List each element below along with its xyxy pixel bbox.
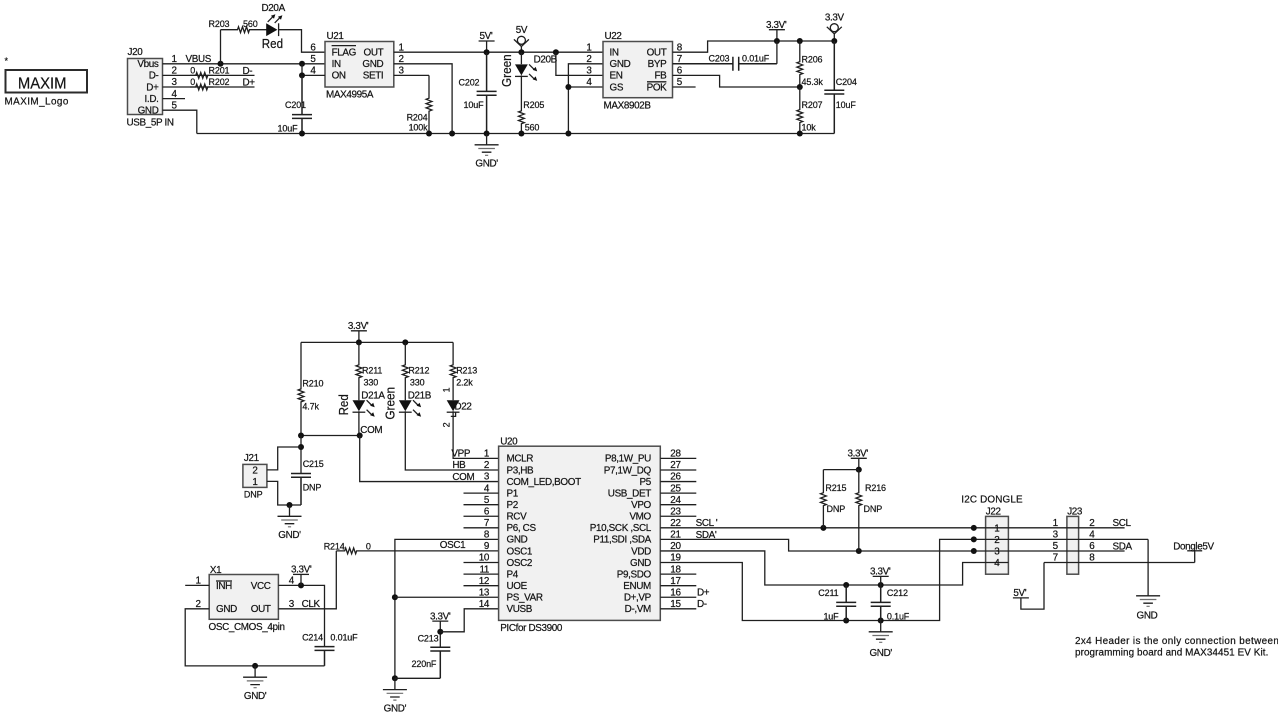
svg-text:GND': GND' (278, 530, 301, 541)
power tap 5V' dongle (1013, 597, 1029, 599)
svg-text:5V': 5V' (1013, 588, 1026, 599)
svg-text:P6, CS: P6, CS (507, 523, 537, 534)
svg-text:6: 6 (310, 42, 316, 53)
junction ON/C201 (299, 72, 305, 78)
wire D21B cathode to U20.HB (405, 412, 498, 470)
ground rail top section (197, 133, 835, 135)
svg-text:0.1uF: 0.1uF (887, 611, 910, 621)
svg-text:Green: Green (383, 387, 398, 420)
power flag 3.3V (827, 27, 842, 41)
wire COM (301, 435, 360, 437)
svg-text:1: 1 (252, 477, 258, 488)
ground GND' under C202 (475, 134, 499, 153)
wire X1.VCC to C214 (278, 585, 324, 646)
svg-text:0: 0 (190, 77, 195, 87)
svg-text:C215: C215 (303, 459, 324, 469)
power tap 3.3V' C213 (432, 620, 448, 622)
svg-text:EN: EN (610, 71, 623, 82)
ground GND' under U20 (383, 678, 407, 697)
microcontroller U20 body (499, 446, 661, 620)
resistor R214 (336, 548, 365, 554)
resistor R215 (821, 470, 827, 528)
svg-text:USB_DET: USB_DET (608, 488, 651, 499)
svg-text:COM: COM (360, 425, 382, 436)
junction GND/GS (565, 84, 571, 90)
wire J23.7 pin8 row (1044, 562, 1195, 564)
svg-text:2: 2 (252, 465, 257, 476)
wire COM to U20.COM_LED (360, 436, 499, 482)
svg-text:J20: J20 (128, 47, 144, 58)
capacitor C213 (430, 647, 450, 678)
svg-text:R203: R203 (209, 19, 230, 29)
wire X1.INH stub (185, 584, 209, 586)
junction 5V'/OUT rail (484, 49, 490, 55)
junction GND/J22.2 (971, 536, 977, 542)
junction R206/rail (797, 38, 803, 44)
svg-text:programming board and MAX34451: programming board and MAX34451 EV Kit. (1075, 647, 1268, 658)
wire U22.EN to 5V rail (556, 52, 603, 75)
wire D20A to U21.FLAG (279, 30, 326, 53)
wire VBUS J20.1 to U21.IN (163, 63, 326, 65)
wire R215 top link (823, 469, 858, 471)
svg-text:R213: R213 (456, 365, 477, 375)
capacitor C204 (824, 41, 844, 134)
junction R204/rail (426, 131, 432, 137)
wire 5V' stub (486, 41, 488, 52)
diode D22 symbol (447, 400, 460, 411)
junction pullup top (856, 467, 862, 473)
wire GND U20.19 to J22.2 (660, 539, 1148, 620)
svg-text:8: 8 (484, 530, 490, 541)
power tap 3.3V' X1 (293, 573, 309, 575)
svg-text:I2C DONGLE: I2C DONGLE (961, 495, 1023, 506)
svg-text:GS: GS (610, 82, 624, 93)
wire U21.SETI to R204 (394, 74, 429, 76)
svg-text:3: 3 (994, 547, 1000, 558)
svg-text:D20B: D20B (534, 54, 558, 65)
junction 3.3V'/rail (774, 38, 780, 44)
resistor R206 (797, 41, 803, 87)
svg-text:R202: R202 (209, 77, 230, 87)
svg-text:COM: COM (452, 472, 474, 483)
ground GND' under C212 (869, 621, 893, 640)
svg-text:0.01uF: 0.01uF (330, 633, 358, 643)
wire 3.3V' stub X1 (300, 574, 302, 585)
svg-text:P10,SCK ,SCL: P10,SCK ,SCL (590, 523, 652, 534)
svg-text:5V: 5V (516, 25, 528, 36)
svg-text:GND: GND (610, 59, 631, 70)
wire C213 to ground (395, 677, 440, 679)
svg-text:U20: U20 (500, 436, 518, 447)
svg-text:FB: FB (654, 71, 667, 82)
wire SCL' U20.22 to J23.2 (660, 527, 1124, 529)
svg-text:9: 9 (484, 541, 490, 552)
wire Dongle5V (1194, 551, 1196, 563)
svg-text:D+: D+ (697, 588, 710, 599)
op-amp U21 body (325, 42, 394, 88)
svg-text:1: 1 (994, 523, 1000, 534)
svg-text:Red: Red (336, 394, 351, 415)
wire U20 pin 25 stub (660, 492, 696, 494)
U21 FLAG overline (332, 45, 356, 47)
svg-text:C213: C213 (418, 633, 439, 643)
svg-text:14: 14 (479, 599, 490, 610)
svg-text:RCV: RCV (507, 512, 528, 523)
svg-text:J21: J21 (244, 453, 260, 464)
svg-text:P3,HB: P3,HB (507, 465, 535, 476)
svg-text:3.3V': 3.3V' (348, 321, 369, 332)
svg-text:4: 4 (1089, 530, 1095, 541)
junction 3.3V/C204 (831, 38, 837, 44)
wire 3.3V' stub C212 (880, 576, 882, 585)
svg-text:R216: R216 (865, 483, 886, 493)
wire U20 pin16 D+ stub (660, 596, 696, 598)
svg-text:C204: C204 (836, 77, 857, 87)
wire J21.1 to C215 bottom (267, 481, 290, 505)
wire U20 pin 24 stub (660, 504, 696, 506)
svg-text:P2: P2 (507, 500, 518, 511)
wire R210 to C215 (300, 436, 302, 474)
svg-text:D-: D- (243, 66, 253, 77)
svg-text:DNP: DNP (864, 504, 883, 514)
svg-text:R214: R214 (324, 541, 345, 551)
junction rail/C211 (843, 618, 849, 624)
junction SDA/J22.3 (971, 548, 977, 554)
wire D22 cathode to U20.MCLR VPP (453, 412, 499, 458)
junction rail/R212 (402, 339, 408, 345)
svg-text:2: 2 (1089, 518, 1094, 529)
junction C215 ground (287, 502, 293, 508)
wire 3.3V' pullup stub (858, 458, 860, 469)
capacitor C201 (292, 75, 312, 133)
svg-text:MAX8902B: MAX8902B (604, 101, 652, 112)
svg-text:2: 2 (994, 535, 999, 546)
svg-text:GND': GND' (244, 691, 267, 702)
wire U20 pin 11 stub (464, 573, 499, 575)
regulator U22 body (603, 42, 673, 98)
svg-text:VPO: VPO (631, 500, 651, 511)
wire U20 pin 18 stub (660, 573, 696, 575)
junction VUSB/C213 (437, 629, 443, 635)
svg-text:1: 1 (484, 449, 490, 460)
svg-text:1: 1 (1053, 518, 1059, 529)
resistor R205 (519, 76, 525, 133)
U22 POK overline (647, 81, 666, 83)
svg-text:OSC1: OSC1 (507, 546, 533, 557)
wire VBUS to U21.ON (302, 64, 325, 76)
svg-text:GND: GND (507, 535, 528, 546)
svg-text:3.3V: 3.3V (825, 13, 845, 24)
wire U20 pin 4 stub (464, 492, 499, 494)
wire J20.5 to ground rail (163, 110, 197, 133)
capacitor C211 (836, 585, 856, 621)
svg-text:3: 3 (1053, 530, 1059, 541)
svg-text:SETI: SETI (363, 71, 384, 82)
LED supply rail (301, 341, 453, 343)
junction C213 ground (392, 675, 398, 681)
svg-text:220nF: 220nF (412, 659, 437, 669)
svg-text:GND': GND' (475, 159, 498, 170)
LED D21A symbol (353, 400, 366, 411)
svg-text:0: 0 (190, 66, 195, 76)
svg-text:D22: D22 (455, 401, 472, 412)
connector J23 (1067, 516, 1079, 574)
svg-text:4.7k: 4.7k (302, 401, 319, 411)
connector J20 (128, 59, 163, 115)
wire U20 pin 17 stub (660, 585, 696, 587)
svg-text:GND': GND' (384, 703, 407, 714)
wire U20 pin 26 stub (660, 481, 696, 483)
svg-text:D-,VM: D-,VM (625, 604, 651, 615)
svg-text:Dongle5V: Dongle5V (1173, 541, 1214, 552)
svg-text:D+: D+ (146, 82, 159, 93)
svg-text:D-: D- (697, 599, 707, 610)
svg-text:MAX4995A: MAX4995A (326, 90, 374, 101)
svg-text:VCC: VCC (251, 581, 271, 592)
wire U22.GND to rail (568, 64, 603, 134)
junction VDD/C212 (878, 582, 884, 588)
wire U20.VUSB (440, 609, 498, 632)
svg-text:BYP: BYP (648, 59, 667, 70)
junction SCL/J22.1 (971, 525, 977, 531)
wire U20 pin 7 stub (464, 527, 499, 529)
wire PS_VAR to U20.13 (395, 596, 499, 598)
svg-text:P4: P4 (507, 569, 519, 580)
wire SDA' U20.21 jog (660, 539, 1124, 551)
svg-text:UOE: UOE (507, 581, 528, 592)
capacitor C214 (315, 647, 335, 666)
svg-text:R207: R207 (802, 100, 823, 110)
svg-text:OSC2: OSC2 (507, 558, 533, 569)
svg-text:GND: GND (1137, 610, 1158, 621)
wire 3.3V' stub LED rail (358, 331, 360, 343)
svg-text:2: 2 (484, 460, 489, 471)
svg-text:2.2k: 2.2k (456, 377, 473, 387)
wire C203 to 3.3V rail (776, 41, 778, 64)
resistor R207 (797, 87, 803, 134)
svg-text:J22: J22 (986, 506, 1001, 517)
svg-text:OSC1: OSC1 (440, 540, 466, 551)
svg-text:0: 0 (366, 541, 371, 551)
capacitor C203 (673, 57, 777, 71)
svg-text:COM_LED,BOOT: COM_LED,BOOT (507, 477, 582, 488)
svg-text:C212: C212 (887, 588, 908, 598)
svg-text:Green: Green (499, 54, 514, 87)
resistor R211 (356, 342, 362, 400)
power tap 5V' top (479, 40, 495, 42)
svg-text:I.D.: I.D. (145, 94, 159, 105)
svg-text:R215: R215 (825, 483, 846, 493)
svg-text:R210: R210 (302, 378, 323, 388)
connector J21 (243, 464, 267, 487)
svg-text:0.01uF: 0.01uF (742, 54, 770, 64)
power tap 3.3V' top (769, 29, 785, 31)
wire 3.3V' stub (776, 30, 778, 41)
svg-text:CLK: CLK (302, 599, 321, 610)
junction VBUS/R203 (218, 61, 224, 67)
wire U20 pin 27 stub (660, 469, 696, 471)
junction VBUS/ON branch (299, 61, 305, 67)
svg-text:3.3V': 3.3V' (870, 567, 891, 578)
X1 INH overline (216, 580, 232, 582)
svg-text:U22: U22 (605, 31, 622, 42)
resistor R216 (856, 470, 862, 551)
svg-text:R205: R205 (523, 100, 544, 110)
svg-text:C211: C211 (818, 588, 838, 598)
svg-text:2x4 Header is the only connect: 2x4 Header is the only connection betwee… (1075, 636, 1278, 647)
svg-text:D-: D- (149, 71, 159, 82)
svg-text:VDD: VDD (631, 546, 651, 557)
svg-text:FLAG: FLAG (332, 48, 356, 59)
wire X1.OUT CLK (278, 551, 336, 609)
resistor R210 (298, 342, 304, 435)
wire U22.OUT to 3.3V rail (673, 41, 835, 52)
wire R203 branch up (220, 30, 222, 64)
wire J20.4 stub (163, 98, 186, 100)
svg-text:USB_5P IN: USB_5P IN (127, 118, 174, 129)
wire U20 pin 5 stub (464, 504, 499, 506)
svg-text:P8,1W_PU: P8,1W_PU (605, 454, 651, 465)
junction SDA/R216 (856, 548, 862, 554)
svg-text:DNP: DNP (303, 483, 322, 493)
power tap 3.3V' pullups (851, 457, 867, 459)
ground GND' under X1 (243, 666, 267, 685)
svg-text:2: 2 (442, 422, 452, 427)
svg-text:D21B: D21B (408, 390, 432, 401)
wire U20 pin 10 stub (464, 562, 499, 564)
wire D21A cathode to COM (358, 412, 360, 435)
svg-text:DNP: DNP (827, 504, 846, 514)
svg-text:D20A: D20A (262, 3, 286, 14)
svg-text:45.3k: 45.3k (802, 77, 824, 87)
svg-text:3: 3 (586, 66, 592, 77)
junction R205/ground rail (518, 131, 524, 137)
svg-text:P7,1W_DQ: P7,1W_DQ (604, 465, 652, 476)
resistor R204 (426, 75, 432, 133)
svg-text:3: 3 (484, 472, 490, 483)
svg-text:GND: GND (138, 106, 159, 117)
svg-text:5: 5 (1053, 541, 1059, 552)
svg-text:MAXIM_Logo: MAXIM_Logo (5, 97, 69, 108)
junction OUT/EN (553, 49, 559, 55)
svg-text:VBUS: VBUS (186, 54, 212, 65)
wire U21.GND to rail (394, 64, 452, 134)
svg-text:SCL ': SCL ' (696, 518, 718, 529)
svg-text:MAXIM: MAXIM (18, 75, 67, 92)
junction FB node (797, 84, 803, 90)
wire C215 bottom to ground (290, 504, 302, 506)
ground GND' under C215 (278, 505, 302, 524)
resistor R212 (402, 342, 408, 400)
junction rail/C212 (878, 618, 884, 624)
svg-text:GND': GND' (869, 648, 892, 659)
svg-text:100k: 100k (409, 123, 429, 133)
svg-text:C203: C203 (709, 54, 730, 64)
junction U22.GND/rail (565, 131, 571, 137)
junction U21.GND/rail (449, 131, 455, 137)
svg-text:R212: R212 (408, 365, 429, 375)
junction J21.2/C215 (298, 444, 304, 450)
svg-text:OSC_CMOS_4pin: OSC_CMOS_4pin (209, 622, 285, 633)
wire U22.GS (568, 86, 603, 88)
svg-text:SDA: SDA (1113, 542, 1133, 553)
svg-text:OUT: OUT (251, 604, 271, 615)
svg-text:1: 1 (442, 387, 452, 392)
power tap Dongle5V (1187, 550, 1202, 552)
svg-text:GND: GND (362, 59, 383, 70)
svg-text:6: 6 (1089, 541, 1095, 552)
wire J23.4 to GND (1147, 539, 1149, 595)
svg-text:DNP: DNP (244, 489, 263, 499)
wire U22.POK stub (673, 86, 696, 88)
svg-text:U21: U21 (327, 31, 345, 42)
wire 3.3V' to C213 (439, 621, 441, 647)
svg-text:10uF: 10uF (278, 124, 299, 134)
resistor R202 (190, 84, 214, 90)
svg-text:VMO: VMO (629, 512, 651, 523)
resistor R213 (450, 342, 456, 400)
svg-text:10uF: 10uF (836, 100, 857, 110)
svg-text:C214: C214 (302, 633, 323, 643)
svg-text:P9,SDO: P9,SDO (617, 569, 652, 580)
svg-text:5: 5 (310, 54, 316, 65)
svg-text:P11,SDI ,SDA: P11,SDI ,SDA (593, 535, 651, 546)
LED D20B symbol (515, 64, 528, 75)
junction COM/R210 (298, 433, 304, 439)
power flag 5V (514, 39, 529, 52)
ground GND dongle (1136, 596, 1160, 603)
junction R207/ground rail (797, 131, 803, 137)
oscillator X1 body (209, 575, 278, 620)
svg-text:560: 560 (243, 19, 258, 29)
svg-text:OUT: OUT (364, 48, 384, 59)
LED D21B symbol (399, 400, 412, 411)
svg-text:3.3V': 3.3V' (430, 611, 451, 622)
svg-text:PICfor DS3900: PICfor DS3900 (500, 623, 563, 634)
wire 5V' to J23.7 (1021, 563, 1044, 610)
svg-text:VUSB: VUSB (507, 604, 533, 615)
junction SCL/R215 (820, 525, 826, 531)
MAXIM logo box (6, 70, 88, 93)
D22 cathode bracket (451, 412, 456, 416)
svg-text:1uF: 1uF (823, 611, 839, 621)
wire D20B anode (520, 52, 522, 64)
svg-text:R206: R206 (802, 55, 823, 65)
svg-text:POK: POK (647, 82, 668, 93)
svg-text:C201: C201 (285, 100, 306, 110)
svg-text:VPP: VPP (451, 449, 470, 460)
wire U20.GND pin8 down (395, 539, 499, 678)
svg-text:ENUM: ENUM (623, 581, 651, 592)
svg-text:HB: HB (452, 460, 466, 471)
wire X1.GND to ground (185, 609, 324, 666)
svg-text:P1: P1 (507, 488, 519, 499)
junction C201/ground rail (299, 131, 305, 137)
junction 5V/D20B (518, 49, 524, 55)
LED D20A symbol (266, 23, 277, 36)
wire J20.3 D+ line (163, 86, 255, 88)
svg-text:D+: D+ (243, 77, 256, 88)
svg-text:P5: P5 (640, 477, 652, 488)
svg-text:GND: GND (216, 604, 237, 615)
junction PS_VAR (392, 594, 398, 600)
svg-text:3.3V': 3.3V' (848, 449, 869, 460)
junction C202/ground rail (484, 131, 490, 137)
svg-text:C202: C202 (459, 77, 480, 87)
capacitor C202 (477, 52, 497, 133)
capacitor C215 (291, 474, 311, 506)
wire U20 pin 23 stub (660, 515, 696, 517)
